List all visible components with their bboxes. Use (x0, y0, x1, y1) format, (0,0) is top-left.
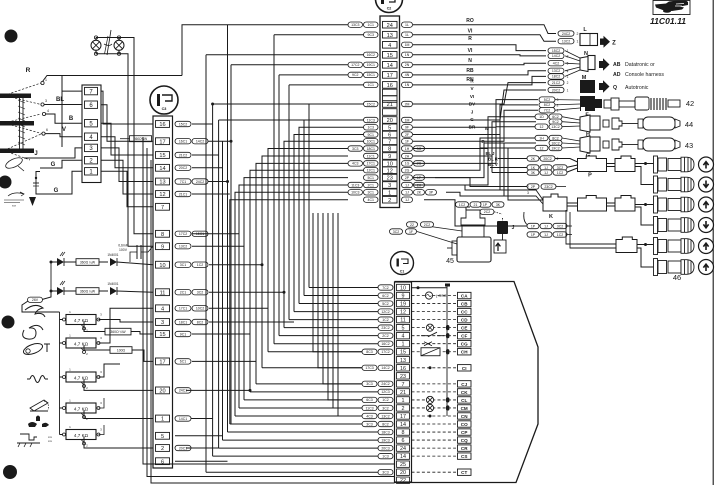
svg-text:CE: CE (461, 326, 467, 331)
coil 44 plug (603, 120, 609, 127)
svg-text:12C3: 12C3 (381, 390, 389, 394)
ECU signal CA (412, 295, 457, 297)
net label 17C3/14C2 (378, 365, 393, 370)
direction arrow 4 (699, 218, 714, 233)
svg-text:11C3: 11C3 (351, 183, 359, 187)
svg-text:17: 17 (159, 139, 165, 145)
ECU pin 5 (397, 324, 410, 330)
svg-text:3K: 3K (531, 171, 536, 175)
svg-text:13: 13 (400, 358, 406, 364)
net label 9C2/15C1 (364, 72, 379, 77)
contact 1 (41, 81, 44, 84)
svg-text:14: 14 (400, 454, 406, 460)
svg-text:12: 12 (387, 168, 393, 174)
spark plug 3 (654, 196, 658, 213)
svg-text:J: J (471, 109, 474, 114)
svg-text:17C3: 17C3 (365, 366, 373, 370)
svg-text:4,7 KΩ: 4,7 KΩ (74, 406, 89, 411)
distributor pickup bars (0, 94, 31, 99)
svg-text:5C2: 5C2 (544, 98, 550, 102)
svg-text:23C2: 23C2 (381, 326, 389, 330)
svg-text:CI: CI (462, 366, 467, 371)
ECU signal CC (412, 311, 457, 313)
svg-text:1P: 1P (531, 224, 536, 228)
net label 2C2 (378, 333, 393, 338)
binder hole bottom (3, 465, 17, 479)
ECU signal CJ (412, 383, 457, 385)
svg-text:13C2: 13C2 (381, 414, 389, 418)
sensor icon coolant (25, 305, 45, 317)
wire resistor2 bottom via 100ohm (84, 345, 110, 350)
svg-text:9C2: 9C2 (552, 120, 558, 124)
direction arrow 3 (699, 197, 714, 212)
ECU pin 2 (397, 405, 410, 411)
svg-text:BL V: BL V (488, 162, 498, 167)
svg-text:1: 1 (567, 88, 569, 92)
net label 3C1/1C2 (175, 262, 191, 267)
svg-text:1C2: 1C2 (557, 171, 563, 175)
svg-text:14: 14 (159, 166, 165, 172)
svg-text:16: 16 (159, 122, 165, 128)
svg-text:2C1: 2C1 (180, 291, 186, 295)
net label 1H/3G (402, 146, 413, 151)
net label 1G/2G (402, 161, 413, 166)
svg-text:21: 21 (400, 390, 406, 396)
wire C2 row to ECU row (299, 127, 364, 303)
strip C3 pin 14 (156, 164, 170, 171)
svg-text:15: 15 (159, 332, 165, 338)
ECU body outline (395, 282, 539, 483)
diode row 1 (50, 261, 53, 264)
svg-text:13C2: 13C2 (552, 69, 560, 73)
coil 44 body (638, 119, 643, 128)
svg-text:10C2: 10C2 (196, 307, 204, 311)
svg-text:14C2: 14C2 (196, 140, 204, 144)
svg-text:RO: RO (466, 18, 474, 24)
connector symbol C2 (376, 0, 403, 13)
svg-text:2P: 2P (531, 185, 536, 189)
svg-text:9: 9 (161, 244, 164, 250)
sensor icon load bench (20, 434, 37, 440)
svg-text:2: 2 (402, 406, 405, 412)
wires rear coil to plugs 5-6 (637, 244, 654, 246)
net label 1H/8C2 (549, 135, 562, 140)
svg-text:6: 6 (402, 438, 405, 444)
warning lamp left (94, 36, 97, 39)
net label 5C1 (364, 175, 379, 180)
speed sensor icon (8, 192, 24, 196)
svg-text:16C2: 16C2 (367, 53, 375, 57)
wires into ECU connector left (206, 471, 378, 473)
wires into coil P (498, 159, 578, 163)
net label 16C1/14C2 (175, 139, 191, 144)
strip C3 pin 8 (156, 230, 170, 237)
net label 1F (402, 139, 413, 144)
net label 12/19C2 (549, 145, 562, 150)
ECU signal CN (412, 415, 457, 417)
net label 13C2 (175, 244, 191, 249)
svg-text:20C1: 20C1 (179, 446, 187, 450)
wires strip C2 to connector F (413, 100, 538, 128)
wire C2 row to ECU row (244, 178, 348, 400)
sensor icon fuel temp (22, 341, 44, 356)
arrow Q (599, 80, 610, 93)
ECU signal CS (412, 455, 457, 457)
svg-text:360Ω ¼W: 360Ω ¼W (80, 261, 96, 265)
svg-text:24: 24 (400, 446, 406, 452)
ECU pin 22 (397, 477, 410, 483)
svg-text:1K: 1K (531, 166, 536, 170)
svg-text:19C1: 19C1 (367, 63, 375, 67)
net label 12C3 (378, 389, 393, 394)
svg-text:3C3: 3C3 (366, 382, 372, 386)
svg-text:3C2: 3C2 (557, 166, 563, 170)
svg-text:19: 19 (400, 302, 406, 308)
net label 1D/6C2 (549, 114, 562, 119)
strip C3 pin 13 (156, 178, 170, 185)
svg-text:G: G (54, 188, 59, 194)
svg-text:4: 4 (388, 43, 391, 49)
net label 12/13C2 (549, 124, 562, 129)
svg-text:1N4001: 1N4001 (107, 282, 118, 286)
strip C3 pin 17 (156, 358, 170, 365)
svg-text:4C1: 4C1 (368, 198, 374, 202)
net label 8C2 (539, 102, 555, 107)
svg-text:21C1: 21C1 (179, 192, 187, 196)
wire C2 row to ECU row (284, 141, 364, 327)
net labels K row (527, 223, 539, 228)
svg-text:2C2: 2C2 (484, 210, 490, 214)
svg-text:1P: 1P (483, 203, 488, 207)
svg-text:1F: 1F (409, 230, 413, 234)
net label 9F (402, 125, 413, 130)
svg-text:2: 2 (388, 198, 391, 204)
net label 2C1/3C2 (175, 290, 191, 295)
wire C2 row to ECU row (309, 104, 364, 288)
svg-text:CL: CL (461, 398, 467, 403)
net label 7C1/24C2 (175, 179, 191, 184)
ECU signal CE (412, 327, 457, 329)
connector A outline (82, 85, 101, 183)
svg-text:14: 14 (400, 422, 406, 428)
ECU pin 6 (397, 437, 410, 443)
ECU pin 1 (397, 341, 410, 347)
svg-text:2C1: 2C1 (368, 183, 374, 187)
svg-text:4C3: 4C3 (352, 162, 358, 166)
svg-text:15C2: 15C2 (367, 102, 375, 106)
svg-text:14C1: 14C1 (179, 417, 187, 421)
svg-text:24C2: 24C2 (381, 382, 389, 386)
svg-text:3K: 3K (496, 203, 501, 207)
ECU pin 14 (397, 421, 410, 427)
svg-text:21: 21 (474, 203, 478, 207)
svg-text:Datatronic or: Datatronic or (625, 62, 655, 68)
ECU pin 4 (397, 332, 410, 338)
wires connector A to strip C3 (101, 91, 153, 124)
junction dots (226, 180, 229, 183)
net label 7C2 (378, 285, 393, 290)
wires strip C2 to connector N (413, 45, 546, 51)
lamp wire bottom riser (119, 54, 128, 120)
ECU signal CM (412, 407, 457, 409)
svg-text:AB: AB (613, 62, 621, 68)
diode row 2 (50, 290, 53, 293)
net label 6C3/1C2 (378, 397, 393, 402)
net label 2M (402, 101, 413, 106)
net label 14C2 (548, 53, 564, 58)
svg-text:10: 10 (159, 263, 165, 269)
svg-text:20: 20 (400, 470, 406, 476)
svg-text:2K: 2K (417, 191, 422, 195)
wire C2 row to ECU row (262, 156, 348, 368)
wires strip C2 to connector L (413, 25, 556, 34)
net label 10C2 (549, 140, 562, 145)
svg-text:1J: 1J (405, 183, 409, 187)
svg-text:6C3: 6C3 (366, 398, 372, 402)
ECU signal CB (412, 303, 457, 305)
wire resistor3 top (99, 364, 121, 377)
ECU pin 10 (397, 284, 410, 290)
svg-text:12C1: 12C1 (367, 169, 375, 173)
svg-text:100V: 100V (119, 248, 128, 252)
strip C3 pin 15 (156, 331, 170, 338)
svg-text:3C2: 3C2 (393, 230, 399, 234)
svg-text:18C1: 18C1 (367, 147, 375, 151)
svg-text:3C3: 3C3 (382, 470, 388, 474)
svg-text:1J: 1J (544, 233, 548, 237)
wires strip C2 bottom rows to coils (435, 178, 527, 187)
svg-text:1: 1 (577, 40, 579, 44)
strip C3 pin 12 (156, 191, 170, 198)
net label 1L (402, 32, 413, 37)
svg-text:24C2: 24C2 (562, 32, 570, 36)
coil 43 plug (603, 141, 609, 148)
svg-text:1N4001: 1N4001 (107, 253, 118, 257)
wire B contact4 to pin5 (46, 114, 83, 123)
svg-text:10: 10 (400, 286, 406, 292)
svg-text:3: 3 (45, 99, 47, 103)
svg-text:6: 6 (46, 128, 48, 132)
svg-text:1G: 1G (405, 162, 410, 166)
svg-text:N: N (584, 51, 588, 57)
svg-text:7C1: 7C1 (180, 180, 186, 184)
svg-text:8: 8 (161, 232, 164, 238)
wire R riser (182, 25, 228, 76)
svg-text:R: R (26, 67, 31, 74)
net labels P row (527, 156, 539, 161)
svg-text:1J: 1J (544, 171, 548, 175)
sensor icon knock wave (30, 376, 45, 383)
net label 1P/3K (479, 202, 491, 207)
ECU pin 23 (397, 373, 410, 379)
net label 8C3/17C2 (378, 349, 393, 354)
svg-text:1: 1 (402, 398, 405, 404)
svg-text:1: 1 (557, 109, 559, 113)
svg-text:2: 2 (557, 157, 559, 161)
resistor top bus risers (99, 398, 105, 408)
svg-text:1L: 1L (405, 23, 409, 27)
svg-text:M: M (485, 126, 489, 131)
svg-text:2: 2 (567, 81, 569, 85)
coil 43 body (638, 140, 643, 149)
connector A pin 4 (85, 133, 98, 140)
net label 3C3/8C2 (378, 421, 393, 426)
svg-text:4,7 KΩ: 4,7 KΩ (74, 341, 89, 346)
resistor 4.7k #2 (60, 342, 67, 344)
svg-text:V: V (62, 127, 66, 133)
svg-text:4,7 KΩ: 4,7 KΩ (74, 433, 89, 438)
wire G to pin2 (40, 160, 82, 168)
svg-text:13: 13 (387, 33, 393, 39)
ECU signal CL (412, 399, 457, 401)
wire resistor1 top to strip (99, 320, 154, 323)
ECU signal CH (412, 351, 457, 353)
connector strip C3 body (153, 116, 173, 468)
contact 3 (41, 103, 44, 106)
svg-text:J: J (34, 151, 37, 157)
wire V contact6 to pin4 (45, 134, 82, 137)
ECU pin 8 (397, 429, 410, 435)
net label 21C1 (175, 191, 191, 196)
resistor 4.7k #3 (60, 376, 67, 378)
svg-text:CR: CR (461, 446, 468, 451)
svg-text:C3: C3 (162, 107, 167, 111)
strip C3 row links (192, 123, 213, 125)
svg-text:1C2: 1C2 (197, 263, 203, 267)
svg-text:P: P (588, 173, 592, 179)
svg-text:12: 12 (400, 310, 406, 316)
sensor icon throttle (30, 400, 48, 411)
net label 2P/1P (402, 175, 413, 180)
svg-text:1C1: 1C1 (368, 23, 374, 27)
net label 17C2/15C1 (175, 231, 191, 236)
svg-text:4,7 KΩ: 4,7 KΩ (74, 375, 89, 380)
svg-text:1: 1 (161, 417, 164, 423)
strip C3 pin 16 (156, 121, 170, 128)
connector A pin 5 (85, 120, 98, 127)
svg-text:10C3: 10C3 (351, 191, 359, 195)
wire C2 row to ECU row (230, 200, 348, 424)
net label 12C2 (378, 309, 393, 314)
wire J to pin3 (24, 148, 82, 158)
ECU signal CO (412, 423, 457, 425)
net label 24C2 (558, 31, 574, 36)
svg-text:16: 16 (387, 83, 393, 89)
ECU internal bus (446, 284, 448, 416)
svg-text:23C2: 23C2 (544, 185, 552, 189)
svg-text:20C2: 20C2 (179, 166, 187, 170)
wire bundle second conductors (313, 213, 362, 352)
net label 26V (28, 297, 43, 302)
direction arrow 5 (699, 239, 714, 254)
svg-text:3: 3 (527, 191, 529, 195)
svg-text:1J: 1J (405, 198, 409, 202)
wire C2 row to ECU row (256, 163, 348, 383)
net label 1J/2K/3P (402, 190, 413, 195)
svg-text:G: G (51, 162, 56, 168)
svg-text:12C2: 12C2 (381, 310, 389, 314)
svg-text:1C2: 1C2 (459, 203, 465, 207)
svg-text:6C1: 6C1 (180, 360, 186, 364)
strip C3 pin 20 (156, 387, 170, 394)
svg-text:1N: 1N (405, 83, 410, 87)
svg-text:1M: 1M (405, 118, 410, 122)
wires into K (522, 190, 543, 200)
net label 3C3 (378, 469, 393, 474)
resistor 4.7k #1 (60, 319, 67, 321)
rotor icon lower (4, 156, 24, 171)
ECU pin 24 (397, 445, 410, 451)
svg-text:100Ω: 100Ω (117, 349, 126, 353)
svg-text:21: 21 (387, 102, 393, 108)
solenoid J (497, 221, 508, 234)
svg-text:2H: 2H (405, 154, 410, 158)
ignition ground switch (35, 178, 37, 188)
svg-text:CJ: CJ (461, 382, 467, 387)
svg-text:C2: C2 (387, 7, 392, 11)
svg-text:1: 1 (45, 78, 47, 82)
svg-text:Q: Q (613, 85, 617, 91)
strip C3 pin 10 (156, 261, 170, 268)
svg-text:7C2: 7C2 (544, 109, 550, 113)
ECU pin 9 (397, 292, 410, 298)
wires to connector G (413, 138, 536, 170)
svg-text:1C2: 1C2 (382, 398, 388, 402)
svg-text:17C2: 17C2 (381, 350, 389, 354)
svg-text:VI: VI (468, 48, 473, 54)
lamp risers continue (134, 120, 153, 234)
svg-text:43: 43 (685, 141, 693, 150)
svg-text:22: 22 (410, 223, 414, 227)
svg-text:5: 5 (161, 434, 164, 440)
svg-text:19C2: 19C2 (551, 146, 559, 150)
net label 13C (558, 39, 574, 44)
svg-text:24C2: 24C2 (196, 180, 204, 184)
net label 1C3 (378, 453, 393, 458)
svg-text:11C1: 11C1 (367, 154, 375, 158)
wires K area down to rear coil (566, 210, 616, 244)
net label 21C2 (548, 80, 564, 85)
svg-text:3C1: 3C1 (368, 191, 374, 195)
net label 17C2/19C1 (364, 62, 379, 67)
svg-text:24: 24 (387, 23, 393, 29)
contact 4 (42, 112, 45, 115)
net label 11C3/3C2 (378, 405, 393, 410)
svg-text:23: 23 (400, 374, 406, 380)
net label 4C3/17C1 (364, 161, 379, 166)
svg-text:R: R (468, 36, 472, 42)
net label 2F (402, 132, 413, 137)
svg-text:17C2: 17C2 (351, 63, 359, 67)
svg-text:2C2: 2C2 (382, 334, 388, 338)
svg-text:3C3: 3C3 (366, 422, 372, 426)
strip C3 pin 6 (156, 458, 170, 465)
net label 12C1 (364, 168, 379, 173)
net label 7C2 (539, 108, 555, 113)
wire C2 row to ECU row (239, 185, 348, 408)
svg-text:3C1: 3C1 (180, 263, 186, 267)
wires strip C2 to connector M (413, 83, 546, 104)
resistor bus left (59, 312, 61, 435)
net label 19C3 (378, 437, 393, 442)
wire resistor2 top (99, 308, 154, 343)
svg-text:21C2: 21C2 (552, 81, 560, 85)
svg-text:14C2: 14C2 (381, 366, 389, 370)
net label 5C2 (378, 301, 393, 306)
bottom feed wires (143, 137, 394, 464)
svg-text:Autotronic: Autotronic (625, 85, 649, 91)
svg-text:2N: 2N (405, 63, 410, 67)
